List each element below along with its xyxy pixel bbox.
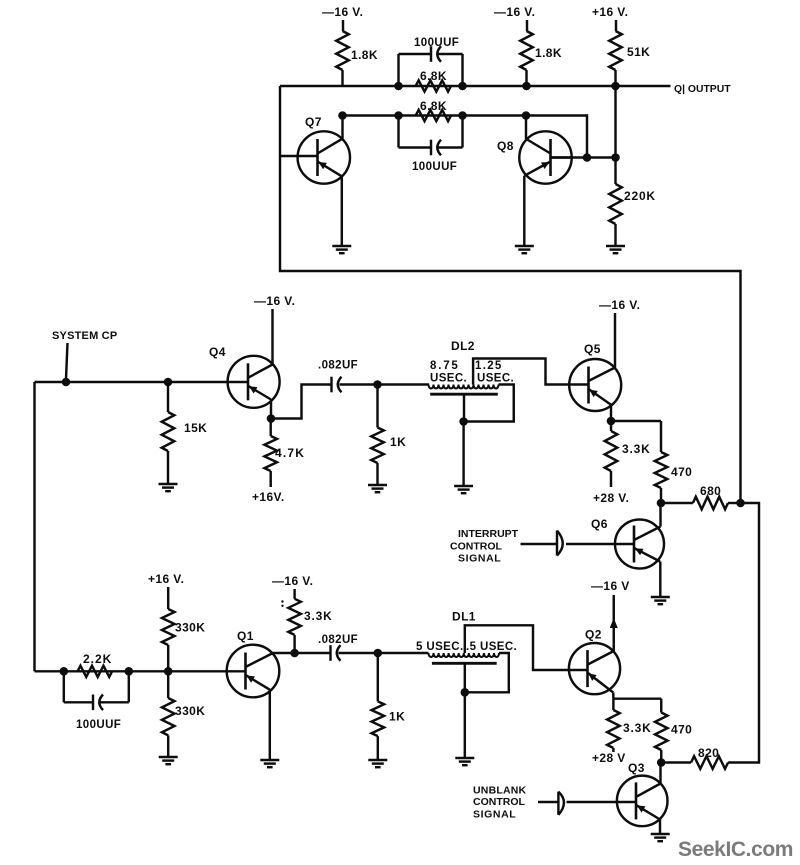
svg-text:Q8: Q8 xyxy=(497,139,514,153)
speck colon artifact xyxy=(281,600,283,602)
svg-text:100UUF: 100UUF xyxy=(412,161,457,173)
wire Q1 collector row xyxy=(272,652,330,654)
wire unblank to Q3 base xyxy=(567,801,617,803)
svg-text:470: 470 xyxy=(671,465,692,479)
wire interrupt to Q6 base xyxy=(566,543,615,545)
wire Q6 emitter down xyxy=(659,562,661,598)
transistor Q1 xyxy=(227,645,280,698)
wire 1.8K(2) to output rail xyxy=(525,70,527,86)
wire 470 top lead xyxy=(660,421,662,452)
resistor 1K (upper) xyxy=(371,428,384,464)
resistor 3.3K (Q5) xyxy=(605,431,618,471)
svg-text:470: 470 xyxy=(671,723,692,737)
svg-text:Q3: Q3 xyxy=(628,761,645,775)
svg-text:3.3K: 3.3K xyxy=(623,721,652,735)
node dot DL2 ground junction xyxy=(459,417,468,426)
wire Q5 emitter to 470 xyxy=(611,420,661,422)
node dot DL1 ground junction xyxy=(461,688,470,697)
wire interrupt input lead xyxy=(521,543,557,545)
wire middle row to Q4 base xyxy=(35,381,228,383)
svg-text:Q4: Q4 xyxy=(209,345,226,359)
resistor 6.8K (lower coupling) xyxy=(416,110,451,121)
node dot Q8 base/220K xyxy=(611,153,620,162)
resistor 6.8K (upper coupling) xyxy=(416,80,451,91)
node dot 680/feedback xyxy=(736,499,745,508)
wire 470 bottom lead xyxy=(660,488,662,503)
wire -16V stub to 3.3K (Q1) xyxy=(293,589,295,599)
ground Q7 emitter xyxy=(332,245,351,247)
wire 100UUF loop right stub xyxy=(128,671,130,702)
wire left trunk down xyxy=(33,382,35,671)
wire lower cap box right stub xyxy=(461,116,463,148)
transistor Q8 xyxy=(519,131,571,183)
svg-text:680: 680 xyxy=(700,484,721,498)
svg-text:—16 V.: —16 V. xyxy=(272,574,313,588)
delay line DL1 core bar xyxy=(432,662,497,665)
capacitor .082UF (lower) xyxy=(329,645,331,661)
svg-text:USEC.: USEC. xyxy=(430,373,467,385)
wire Q5 emitter down xyxy=(610,405,612,421)
ground Q3 emitter xyxy=(651,833,670,835)
node dot rail/1.8K(2) xyxy=(522,82,531,91)
svg-text:—16 V.: —16 V. xyxy=(599,298,640,312)
wire lower cap box bottom-left xyxy=(399,146,431,148)
ground 15K xyxy=(159,483,178,485)
node dot crossrail/Q8 collector xyxy=(522,111,531,120)
svg-text:—16 V.: —16 V. xyxy=(322,5,363,19)
svg-text:1K: 1K xyxy=(389,710,405,724)
wire 1K bottom lead (upper) xyxy=(376,463,378,485)
resistor 3.3K (Q2) xyxy=(607,710,620,748)
node dot rail/upper-left stub xyxy=(394,82,403,91)
svg-text:DL1: DL1 xyxy=(452,610,476,624)
ground Q1 emitter xyxy=(260,759,279,761)
svg-text:1K: 1K xyxy=(390,435,406,449)
ground Q8 emitter xyxy=(515,245,534,247)
wire Q1-output rail xyxy=(280,85,671,87)
node dot crossrail/Q7 collector xyxy=(338,111,347,120)
svg-text:UNBLANK: UNBLANK xyxy=(473,785,527,797)
resistor 820 xyxy=(691,756,728,769)
wire Q8 base to divider xyxy=(551,156,616,158)
transistor Q3 xyxy=(617,776,668,827)
wire Q2 collector up to -16V xyxy=(613,595,615,651)
wire DL1 core to junction xyxy=(464,663,466,692)
wire 100UUF loop left stub xyxy=(63,671,65,702)
resistor 51K xyxy=(609,31,622,70)
wire cross rail xyxy=(343,116,588,158)
wire Q5 collector up to -16V xyxy=(614,313,616,368)
svg-text:Q1: Q1 xyxy=(237,629,254,643)
wire Q8 collector xyxy=(525,116,527,140)
wire -16V stub to R 1.8K xyxy=(342,20,344,31)
node dot Q5 emitter xyxy=(607,417,616,426)
wire upper cap box right stub xyxy=(461,54,463,86)
wire feedback loop left/bottom/right xyxy=(280,86,741,503)
svg-text:.082UF: .082UF xyxy=(318,634,358,646)
svg-text:Q| OUTPUT: Q| OUTPUT xyxy=(674,84,731,95)
wire -16V stub to R 1.8K (2) xyxy=(526,20,528,31)
wire Q2 emitter down xyxy=(612,693,615,699)
node dot 15K junction xyxy=(164,378,173,387)
node dot rail/upper-right stub xyxy=(458,82,467,91)
wire Q8 emitter down xyxy=(523,176,525,246)
svg-text:USEC.: USEC. xyxy=(477,373,514,385)
svg-text:15K: 15K xyxy=(184,421,207,435)
transistor Q4 xyxy=(228,356,280,408)
node dot 2.2K right xyxy=(125,667,134,676)
wire 3.3K top lead (Q5) xyxy=(610,421,612,431)
svg-text:+16 V.: +16 V. xyxy=(148,572,184,586)
svg-text:330K: 330K xyxy=(175,621,205,635)
svg-text:—16 V.: —16 V. xyxy=(254,294,295,308)
wire 3.3K bottom lead (Q5) xyxy=(610,471,612,487)
wire 15K bottom lead xyxy=(167,451,169,484)
transistor Q7 xyxy=(298,131,350,183)
wire DL1 right end loop xyxy=(465,653,509,692)
svg-text:INTERRUPT: INTERRUPT xyxy=(458,528,519,540)
wire Q7 base to left rail xyxy=(280,155,298,157)
node dot 2.2K left xyxy=(60,667,69,676)
wire +16V stub to 330K xyxy=(167,587,169,609)
wire cap to 1K node xyxy=(340,383,430,385)
svg-text:6.8K: 6.8K xyxy=(420,69,447,83)
wire Q4 collector up to -16V xyxy=(271,309,273,365)
transistor Q6 xyxy=(615,520,664,569)
wire 51K to 220K xyxy=(614,86,616,184)
wire 3.3K bottom lead (Q2) xyxy=(612,748,614,752)
wire row to 330K lower xyxy=(167,671,169,698)
resistor 1.8K (Q7 collector load) xyxy=(336,31,349,70)
svg-text:5 USEC.: 5 USEC. xyxy=(416,641,464,653)
wire upper cap box top-right xyxy=(439,53,463,55)
wire Q3 collector up xyxy=(659,763,661,784)
wire Q1 emitter down xyxy=(269,690,271,760)
node dot Q8 base/crossrail drop xyxy=(583,153,592,162)
wire DL2 core to junction xyxy=(463,394,465,421)
svg-text:DL2: DL2 xyxy=(451,339,475,353)
svg-text:.082UF: .082UF xyxy=(318,360,358,372)
resistor 470 (Q6 collector) xyxy=(655,452,668,488)
capacitor 100UUF (upper coupling) xyxy=(430,46,432,62)
svg-text:Q6: Q6 xyxy=(591,517,608,531)
wire 51K to output rail xyxy=(614,70,616,86)
node dot Q4 emitter xyxy=(267,414,276,423)
node dot 330K junction xyxy=(164,667,173,676)
wire 1K top lead (lower) xyxy=(377,653,379,701)
resistor 4.7K xyxy=(264,436,277,471)
resistor 330K (upper) xyxy=(162,609,175,645)
input bubble (interrupt) xyxy=(556,531,558,556)
svg-text:6.8K: 6.8K xyxy=(420,99,447,113)
svg-text:8.75: 8.75 xyxy=(430,360,460,372)
svg-text:—16 V: —16 V xyxy=(591,579,630,593)
svg-text:4.7K: 4.7K xyxy=(275,446,305,460)
wire bottom row xyxy=(35,670,227,672)
node dot SYSTEM CP xyxy=(62,378,71,387)
svg-text:100UUF: 100UUF xyxy=(76,719,121,731)
wire Q4 emitter down xyxy=(270,400,272,419)
wire Q6 collector up xyxy=(659,503,661,527)
wire SYSTEM CP lead xyxy=(66,343,68,379)
wire 100UUF loop bottom-right xyxy=(101,701,129,703)
wire cap to DL1 xyxy=(339,652,429,654)
resistor 15K xyxy=(162,412,175,451)
capacitor .082UF (upper) xyxy=(330,377,332,393)
ground 1K (upper) xyxy=(368,484,387,486)
svg-text:3.3K: 3.3K xyxy=(622,442,651,456)
svg-text:SeekIC.com: SeekIC.com xyxy=(678,838,793,861)
wire 470 bottom lead (lower) xyxy=(660,750,662,763)
wire 4.7K top lead xyxy=(269,419,271,437)
resistor 1.8K (Q8 collector load) xyxy=(520,31,533,70)
wire 15K top lead xyxy=(167,382,169,412)
wire 3.3K top lead (Q2) xyxy=(612,699,614,710)
node dot Q3 collector xyxy=(657,758,666,767)
svg-text:330K: 330K xyxy=(175,704,205,718)
svg-text:.5 USEC.: .5 USEC. xyxy=(466,641,517,653)
ground DL2 xyxy=(454,485,473,487)
svg-text:+16 V.: +16 V. xyxy=(592,5,628,19)
wire 100UUF loop bottom-left xyxy=(64,701,92,703)
wire lower cap box left stub xyxy=(397,116,399,148)
resistor 1K (lower) xyxy=(372,701,385,736)
wire 680 left lead xyxy=(661,502,693,504)
svg-text:2.2K: 2.2K xyxy=(83,652,112,666)
wire upper cap box left stub xyxy=(397,54,399,86)
wire upper cap box top-left xyxy=(399,53,431,55)
capacitor 100UUF (2.2K bypass) xyxy=(92,695,94,711)
node dot crossrail/lower-right stub xyxy=(458,111,467,120)
node dot crossrail/lower-left stub xyxy=(394,111,403,120)
svg-text:1.25: 1.25 xyxy=(475,360,503,372)
transistor Q2 xyxy=(569,643,620,694)
wire 1.8K to output rail xyxy=(341,70,343,86)
svg-text:1.8K: 1.8K xyxy=(535,46,562,60)
svg-text:CONTROL: CONTROL xyxy=(450,541,502,553)
wire 330K lower to ground xyxy=(167,735,169,757)
ground 220K xyxy=(606,245,625,247)
node dot rail/51K xyxy=(611,82,620,91)
wire 1K top lead (upper) xyxy=(376,385,378,428)
node dot 1K (lower) xyxy=(374,649,383,658)
svg-text:Q7: Q7 xyxy=(305,115,322,129)
wire DL1 junction to ground xyxy=(464,692,466,758)
wire unblank input lead xyxy=(538,801,558,803)
svg-text:+16V.: +16V. xyxy=(252,490,285,504)
wire 470 top lead (lower) xyxy=(660,699,662,713)
wire Q2 emitter to 470 (lower) xyxy=(613,697,661,699)
resistor 220K xyxy=(609,184,622,224)
delay line DL1 coil xyxy=(429,653,500,657)
svg-text:+28 V: +28 V xyxy=(592,751,626,765)
ground DL1 xyxy=(455,757,474,759)
input bubble (unblank) xyxy=(557,792,559,815)
arrowhead on Q2 collector wire xyxy=(610,618,618,628)
wire 220K to ground xyxy=(614,224,616,246)
svg-text:51K: 51K xyxy=(627,45,650,59)
wire Q7 collector xyxy=(341,116,343,140)
ground 1K (lower) xyxy=(368,759,387,761)
svg-text:100UUF: 100UUF xyxy=(414,37,459,49)
wire 3.3K to Q1 collector row xyxy=(293,635,295,653)
svg-text:SIGNAL: SIGNAL xyxy=(458,553,501,565)
svg-text:SYSTEM CP: SYSTEM CP xyxy=(52,330,117,342)
svg-text:CONTROL: CONTROL xyxy=(473,796,525,808)
resistor 470 (Q3 collector) xyxy=(655,713,668,751)
node dot Q6 collector xyxy=(657,499,666,508)
node dot 3.3K/row xyxy=(290,649,299,658)
wire 1K bottom lead (lower) xyxy=(377,736,379,760)
svg-text:820: 820 xyxy=(698,746,719,760)
svg-text:3.3K: 3.3K xyxy=(304,609,333,623)
resistor 3.3K (Q1 collector) xyxy=(288,599,301,635)
resistor 680 xyxy=(693,497,728,510)
svg-text:220K: 220K xyxy=(624,189,656,203)
wire +16V stub to R 51K xyxy=(615,20,617,31)
wire 820 left lead xyxy=(661,761,691,763)
svg-text:1.8K: 1.8K xyxy=(351,48,378,62)
transistor Q5 xyxy=(569,359,621,411)
capacitor 100UUF (lower coupling) xyxy=(430,140,432,156)
wire DL2 right end loop xyxy=(464,385,514,422)
svg-text:Q5: Q5 xyxy=(584,342,601,356)
svg-text:—16 V.: —16 V. xyxy=(494,5,535,19)
node dot 1K (upper) xyxy=(373,380,382,389)
wire DL2 junction to ground xyxy=(462,422,464,487)
wire 330K to row xyxy=(167,645,169,671)
ground Q6 emitter xyxy=(651,596,670,598)
wire Q7 emitter down xyxy=(341,176,343,246)
resistor 2.2K xyxy=(78,666,113,677)
ground 330K xyxy=(159,756,178,758)
wire 680 right lead xyxy=(728,502,741,504)
wire lower cap box bottom-right xyxy=(439,146,463,148)
wire right trunk down to 820 xyxy=(728,503,759,763)
wire DL1 tap up and over to Q2 base xyxy=(465,625,569,670)
delay line DL2 core bar xyxy=(430,393,498,396)
wire Q3 emitter down xyxy=(659,820,661,835)
svg-text:+28 V.: +28 V. xyxy=(593,491,629,505)
wire Q4 emitter jog to coupling cap xyxy=(271,385,331,419)
svg-text:SIGNAL: SIGNAL xyxy=(473,809,516,821)
wire 4.7K bottom lead xyxy=(269,471,271,487)
wire DL2 tap up and over to Q5 base xyxy=(473,359,569,385)
delay line DL2 coil xyxy=(429,385,499,389)
resistor 330K (lower) xyxy=(162,698,175,735)
svg-text:Q2: Q2 xyxy=(585,628,602,642)
